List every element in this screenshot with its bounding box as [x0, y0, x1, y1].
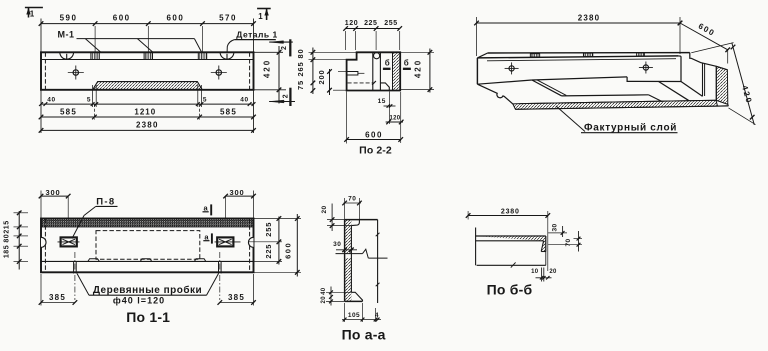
svg-text:40: 40 [321, 287, 327, 295]
svg-text:15: 15 [378, 98, 386, 105]
svg-text:20: 20 [321, 296, 327, 304]
svg-text:255: 255 [264, 222, 273, 237]
svg-text:1: 1 [258, 12, 263, 21]
svg-text:70: 70 [565, 238, 572, 246]
svg-text:120: 120 [345, 20, 358, 27]
svg-text:2380: 2380 [136, 121, 159, 130]
svg-text:420: 420 [263, 59, 272, 78]
svg-text:1: 1 [30, 9, 35, 18]
svg-text:70: 70 [348, 195, 356, 202]
svg-text:200: 200 [317, 70, 326, 85]
svg-text:75: 75 [296, 80, 305, 90]
svg-text:585: 585 [60, 107, 77, 116]
svg-text:Деревянные пробки: Деревянные пробки [93, 284, 202, 296]
svg-text:600: 600 [283, 242, 292, 259]
svg-text:2380: 2380 [578, 14, 601, 23]
svg-text:105: 105 [348, 312, 360, 319]
svg-text:20: 20 [549, 269, 557, 275]
svg-text:б: б [404, 58, 409, 67]
svg-text:20: 20 [321, 205, 328, 213]
svg-text:215: 215 [4, 220, 11, 233]
svg-text:600: 600 [113, 13, 131, 22]
svg-text:По 2-2: По 2-2 [359, 145, 392, 157]
svg-text:М-1: М-1 [58, 29, 75, 39]
svg-text:585: 585 [220, 107, 237, 116]
svg-text:40: 40 [240, 97, 248, 104]
svg-text:420: 420 [414, 59, 423, 78]
svg-text:2: 2 [281, 46, 288, 50]
svg-text:590: 590 [60, 13, 78, 22]
svg-text:265: 265 [296, 62, 305, 77]
svg-text:2380: 2380 [501, 208, 520, 215]
svg-text:80: 80 [4, 234, 11, 243]
svg-text:570: 570 [219, 13, 237, 22]
svg-text:5: 5 [203, 97, 207, 104]
svg-text:300: 300 [230, 188, 245, 197]
svg-text:225: 225 [264, 244, 273, 259]
svg-text:4: 4 [375, 312, 379, 319]
svg-text:225: 225 [364, 20, 377, 27]
svg-text:385: 385 [228, 293, 245, 302]
svg-text:2: 2 [282, 94, 289, 98]
svg-text:Деталь 1: Деталь 1 [236, 29, 277, 39]
svg-text:1210: 1210 [134, 107, 156, 116]
svg-text:80: 80 [296, 49, 305, 59]
svg-text:120: 120 [389, 116, 400, 122]
svg-text:30: 30 [333, 241, 341, 248]
svg-text:б: б [385, 58, 390, 67]
svg-text:255: 255 [384, 20, 397, 27]
svg-text:Фактурный слой: Фактурный слой [584, 123, 677, 134]
svg-text:По а-а: По а-а [342, 327, 386, 343]
svg-text:10: 10 [531, 269, 539, 275]
svg-text:По 1-1: По 1-1 [126, 309, 170, 325]
svg-text:600: 600 [365, 130, 383, 139]
svg-text:30: 30 [552, 223, 559, 231]
svg-text:385: 385 [49, 293, 66, 302]
svg-text:300: 300 [46, 188, 61, 197]
svg-text:5: 5 [87, 97, 91, 104]
svg-text:По б-б: По б-б [487, 281, 533, 297]
svg-text:40: 40 [47, 97, 55, 104]
svg-text:185: 185 [4, 245, 11, 258]
svg-text:ф40 l=120: ф40 l=120 [113, 295, 165, 305]
svg-text:600: 600 [166, 13, 184, 22]
